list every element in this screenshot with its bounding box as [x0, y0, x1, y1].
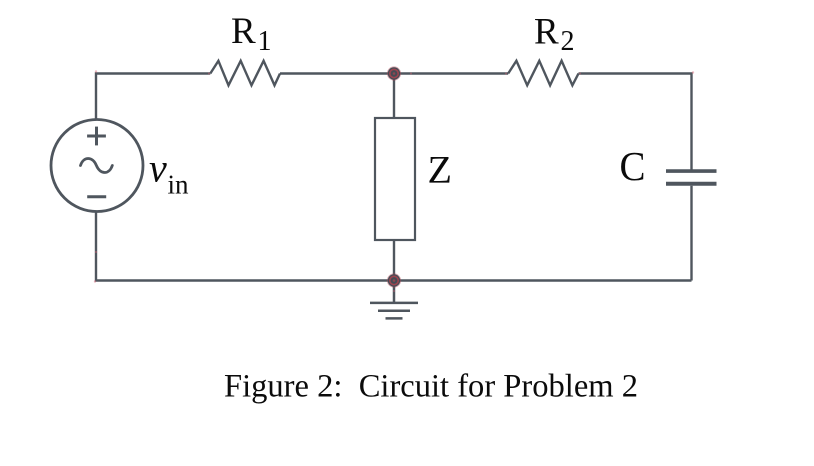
capacitor C plates — [666, 171, 717, 184]
svg-text:R: R — [231, 11, 256, 52]
wire top-left horizontal (source top to R1) — [96, 74, 210, 120]
wire R2 to top-right corner down to capacitor — [579, 74, 692, 170]
label R1 — [231, 11, 272, 57]
svg-text:Z: Z — [428, 149, 453, 192]
svg-text:v: v — [149, 146, 167, 191]
resistor R1 — [210, 61, 280, 86]
wire Z box bottom to node B — [393, 240, 395, 281]
impedance Z box — [375, 118, 415, 240]
resistor R2 — [508, 61, 578, 86]
label R2 — [534, 12, 575, 58]
wire joint artifact specks — [94, 70, 694, 292]
plus sign — [87, 127, 106, 146]
node A junction dot — [387, 66, 401, 80]
svg-text:C: C — [620, 143, 646, 189]
sine symbol — [81, 159, 113, 173]
node B junction dot — [387, 273, 401, 287]
svg-text:1: 1 — [258, 26, 272, 57]
svg-text:2: 2 — [561, 26, 575, 57]
wire bottom rail — [96, 212, 692, 281]
svg-text:in: in — [168, 170, 190, 200]
wire node A to Z box top — [393, 74, 395, 119]
svg-text:Figure 2: Circuit for Problem: Figure 2: Circuit for Problem 2 — [224, 369, 638, 405]
wire R1 to node A — [280, 72, 394, 74]
ground — [370, 281, 418, 319]
svg-text:R: R — [534, 12, 559, 53]
minus sign — [87, 195, 106, 198]
AC source vin circle — [51, 120, 143, 212]
wire capacitor bottom to bottom-right corner — [690, 186, 692, 281]
wire node A to R2 — [394, 72, 508, 74]
label vin — [149, 146, 189, 200]
